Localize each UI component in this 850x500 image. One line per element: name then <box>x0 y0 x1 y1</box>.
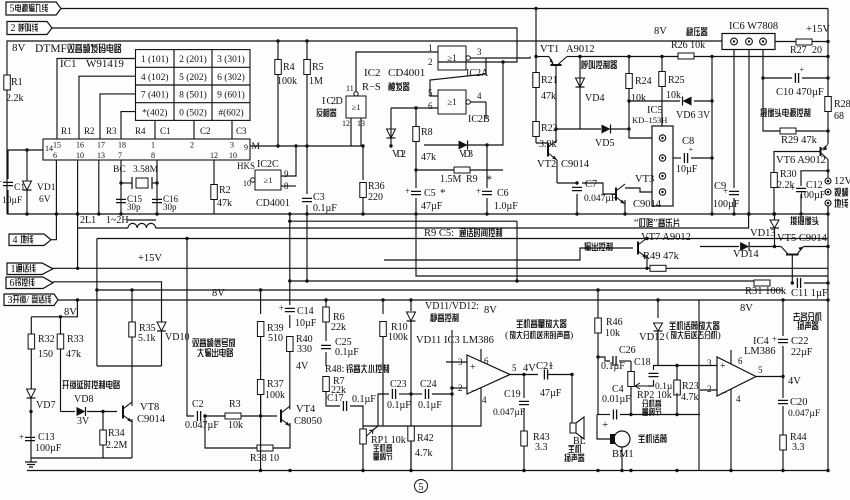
svg-text:1.5M: 1.5M <box>440 174 462 185</box>
wire bottoms to bus <box>259 469 262 472</box>
resistor R9 1.5M <box>416 169 503 171</box>
svg-text:R9: R9 <box>466 174 478 185</box>
svg-text:C7: C7 <box>585 179 597 190</box>
svg-text:0.1µF: 0.1µF <box>335 347 359 358</box>
resistor R35 <box>131 290 133 322</box>
svg-text:9 (601): 9 (601) <box>217 90 245 101</box>
svg-text:R32: R32 <box>38 334 55 345</box>
svg-text:VD13: VD13 <box>750 228 776 239</box>
wire VT2 collector node <box>535 114 537 121</box>
svg-text:6: 6 <box>738 356 743 366</box>
diode VD7 <box>27 389 36 398</box>
wire receive signal to C2 <box>187 239 194 417</box>
capacitor C6 <box>486 145 488 188</box>
svg-text:VD4: VD4 <box>585 93 604 104</box>
svg-text:RP1 10k: RP1 10k <box>371 435 406 446</box>
resistor R7 <box>323 377 330 392</box>
svg-text:330: 330 <box>297 344 312 355</box>
svg-text:6: 6 <box>484 356 489 366</box>
svg-text:R2: R2 <box>84 126 95 136</box>
diode VD13 <box>774 214 776 220</box>
svg-text:CD4001: CD4001 <box>256 198 290 209</box>
svg-text:8: 8 <box>151 151 155 160</box>
text dual tone output circuit <box>192 338 235 347</box>
svg-text:6: 6 <box>10 278 15 289</box>
svg-text:3V: 3V <box>77 416 90 427</box>
svg-text:DTMF: DTMF <box>35 43 67 55</box>
svg-text:2: 2 <box>401 149 406 160</box>
svg-text:3 (301): 3 (301) <box>217 54 245 65</box>
resistor R44 <box>780 435 787 450</box>
svg-text:+: + <box>549 362 554 371</box>
resistor R39 <box>260 290 262 314</box>
transistor VT7 pnp <box>637 242 639 255</box>
svg-text:47k: 47k <box>66 349 81 360</box>
svg-text:VT7 A9012: VT7 A9012 <box>641 232 691 243</box>
svg-text:5: 5 <box>419 482 424 493</box>
resistor R1 <box>4 75 11 90</box>
svg-text:7 (401): 7 (401) <box>141 90 169 101</box>
svg-text:2.2M: 2.2M <box>106 440 128 451</box>
wire M output <box>250 145 363 147</box>
svg-text:1.0µF: 1.0µF <box>494 201 518 212</box>
svg-text:0.1µF: 0.1µF <box>313 203 337 214</box>
ground bus y214 <box>7 213 828 215</box>
svg-text:1M: 1M <box>309 76 323 87</box>
svg-text:10k: 10k <box>605 328 620 339</box>
svg-text:4: 4 <box>477 91 482 101</box>
svg-text:+: + <box>19 432 24 442</box>
page number 5 <box>415 480 428 493</box>
svg-text:R26 10k: R26 10k <box>671 40 705 51</box>
svg-text:3V: 3V <box>698 110 711 121</box>
text unlock delay control <box>62 380 119 389</box>
resistor R25 <box>661 57 663 72</box>
resistor R38 <box>257 445 273 451</box>
resistor R24 <box>628 57 630 74</box>
svg-text:100µF: 100µF <box>713 199 740 210</box>
svg-text:47µF: 47µF <box>421 201 443 212</box>
text connect camera <box>790 216 818 225</box>
svg-text:47k: 47k <box>421 152 436 163</box>
svg-text:C3: C3 <box>313 192 325 203</box>
wire reg pin3 down <box>762 50 764 79</box>
svg-text:R37: R37 <box>267 379 284 390</box>
svg-text:≥1: ≥1 <box>264 175 273 185</box>
wire: left edge below R1 <box>6 90 8 214</box>
svg-text:10k: 10k <box>631 93 646 104</box>
svg-text:4.7k: 4.7k <box>681 392 699 403</box>
svg-text:≥1: ≥1 <box>447 97 456 107</box>
svg-text:HKS: HKS <box>237 161 255 171</box>
flag 5 power input line <box>6 2 61 15</box>
svg-text:+: + <box>470 362 476 373</box>
svg-text:20: 20 <box>812 45 822 56</box>
resistor R29 <box>763 78 790 131</box>
svg-text:(: ( <box>505 330 508 341</box>
svg-text:D: D <box>336 96 343 107</box>
diode VD3 <box>424 144 500 146</box>
diode VD12 <box>657 300 659 318</box>
gate IC2B <box>438 90 466 114</box>
svg-text:2 (201): 2 (201) <box>179 54 207 65</box>
wire 8V drop x77 <box>31 300 77 317</box>
svg-text:C2: C2 <box>200 126 211 136</box>
wire RS cross couple <box>430 58 486 96</box>
svg-text:10k: 10k <box>666 90 681 101</box>
wire IC2D inputs <box>350 118 352 146</box>
svg-text:VD14: VD14 <box>733 249 759 260</box>
svg-text:C3: C3 <box>236 126 247 136</box>
resistor R2 <box>213 160 215 214</box>
svg-text:M: M <box>252 142 261 152</box>
svg-text:100k: 100k <box>388 332 408 343</box>
bus y260 <box>384 248 633 260</box>
svg-text:68: 68 <box>834 111 844 122</box>
transistor VT4 <box>280 410 282 423</box>
svg-text:12: 12 <box>210 151 218 160</box>
svg-text:VD5: VD5 <box>595 138 614 149</box>
svg-text:A9012: A9012 <box>566 44 595 55</box>
resistor R22 <box>533 122 540 137</box>
wire chip pins <box>629 129 652 138</box>
text to extension speakers <box>793 312 821 321</box>
wire emitter line y56 <box>580 56 828 58</box>
resistor R42 <box>410 394 412 426</box>
resistor R10 <box>382 300 384 314</box>
svg-text:10: 10 <box>229 151 237 160</box>
diode VD4 <box>579 57 581 102</box>
transistor VT3 <box>615 188 617 201</box>
svg-text:IC2C: IC2C <box>257 159 279 170</box>
resistor R23 <box>658 366 677 383</box>
svg-text:2: 2 <box>458 383 463 393</box>
wire riser x96.9 down to unlock box <box>96 239 98 367</box>
svg-text:C19: C19 <box>504 389 521 400</box>
svg-text:IC6 W7808: IC6 W7808 <box>729 21 778 32</box>
flag 4 ground line <box>9 234 51 246</box>
wire reg pin2 down <box>748 50 750 215</box>
wire ring line <box>53 282 162 322</box>
svg-text:): ) <box>718 330 721 341</box>
svg-text:1: 1 <box>428 43 433 53</box>
svg-text:R27: R27 <box>790 45 807 56</box>
svg-text:R−S: R−S <box>362 82 381 93</box>
svg-text:C26: C26 <box>619 345 636 356</box>
wires: keypad cols to IC1 <box>154 120 156 139</box>
svg-text:3: 3 <box>8 295 13 306</box>
svg-text:C10 470µF: C10 470µF <box>776 87 824 98</box>
capacitor C10 <box>763 77 792 79</box>
svg-text:I: I <box>322 96 325 107</box>
svg-text:BC: BC <box>113 165 126 175</box>
resistor R34 <box>102 412 104 431</box>
ground symbol <box>30 458 32 462</box>
svg-text:3: 3 <box>707 358 712 368</box>
svg-text:+: + <box>720 361 726 372</box>
svg-text:VT4: VT4 <box>296 404 316 415</box>
net column x452 <box>451 330 453 471</box>
keypad matrix table <box>136 50 251 121</box>
svg-text:4V: 4V <box>523 363 536 374</box>
svg-text:3.58M: 3.58M <box>133 165 159 175</box>
svg-text:30p: 30p <box>127 202 141 212</box>
svg-text:1: 1 <box>151 141 155 150</box>
svg-text:0.1µF: 0.1µF <box>387 400 411 411</box>
svg-text:14: 14 <box>45 144 53 153</box>
wire IC4 pin3 <box>677 365 717 367</box>
svg-text:0.047µF: 0.047µF <box>493 408 525 418</box>
resistor R27 <box>796 39 812 45</box>
svg-text:6: 6 <box>428 101 433 111</box>
svg-text:VT5 C9014: VT5 C9014 <box>777 233 828 244</box>
svg-text:150: 150 <box>38 349 53 360</box>
svg-text:100µF: 100µF <box>35 443 62 454</box>
svg-text:3: 3 <box>230 141 234 150</box>
svg-text:8V: 8V <box>484 305 497 316</box>
svg-text:1 (101): 1 (101) <box>141 54 169 65</box>
svg-text:4V: 4V <box>788 376 801 387</box>
svg-text:+: + <box>790 183 795 193</box>
svg-text:C2: C2 <box>192 399 204 410</box>
svg-text:1~2H: 1~2H <box>106 215 129 226</box>
resistor R28 <box>825 97 832 112</box>
svg-text:VD11: VD11 <box>416 335 441 346</box>
svg-text:W91419: W91419 <box>86 58 124 70</box>
text camera power control <box>760 108 810 117</box>
wire mic line y414.5 <box>597 414 610 416</box>
wire VD3 line to gate <box>500 62 503 145</box>
wires IC1 bottom pins to ground bus <box>55 160 57 214</box>
svg-text:R4: R4 <box>283 62 295 73</box>
svg-text:2: 2 <box>428 57 433 67</box>
svg-text:2.2k: 2.2k <box>6 93 24 104</box>
svg-text:9: 9 <box>284 169 289 179</box>
capacitor C5 <box>415 170 417 188</box>
svg-text:12: 12 <box>342 119 350 128</box>
svg-text:+: + <box>279 303 284 313</box>
svg-text:#(602): #(602) <box>218 107 243 118</box>
gate IC2A <box>438 46 466 70</box>
svg-text:C13: C13 <box>38 432 55 443</box>
resistor R3 <box>225 413 241 419</box>
wires: keypad rows to IC1 <box>57 59 136 140</box>
svg-text:+: + <box>800 65 805 74</box>
transistor VT2 <box>547 144 549 157</box>
bottom bus <box>27 470 828 472</box>
svg-text:R9 C5:: R9 C5: <box>424 228 454 239</box>
svg-text:8 (501): 8 (501) <box>179 90 207 101</box>
svg-text:4: 4 <box>736 394 741 404</box>
svg-text:R1: R1 <box>61 126 72 136</box>
capacitor C1 <box>3 182 13 185</box>
svg-text:8V: 8V <box>64 307 77 318</box>
svg-text:BM1: BM1 <box>612 449 634 460</box>
svg-text:R24: R24 <box>635 76 652 87</box>
svg-text:*: * <box>440 187 446 199</box>
svg-text:10k: 10k <box>228 420 243 431</box>
svg-text:C9014: C9014 <box>561 159 590 170</box>
svg-text:1: 1 <box>11 264 16 275</box>
svg-text:3: 3 <box>477 47 482 57</box>
flag 3 unlock line <box>4 294 58 306</box>
potentiometer RP2 <box>628 372 635 387</box>
capacitor C2 <box>197 411 200 421</box>
svg-text:C24: C24 <box>420 379 437 390</box>
wire rail 712 <box>711 57 713 215</box>
wire gate inputs <box>391 107 438 109</box>
svg-text:R49 47k: R49 47k <box>643 251 680 262</box>
svg-text:0.1µF: 0.1µF <box>601 361 625 372</box>
wire VT4 emitter <box>273 423 290 448</box>
svg-text:47k: 47k <box>541 91 556 102</box>
svg-text:R25: R25 <box>668 75 685 86</box>
svg-text:+: + <box>405 186 410 196</box>
svg-text:“: “ <box>634 218 639 229</box>
svg-text:47µF: 47µF <box>540 388 562 399</box>
svg-text:4 (102): 4 (102) <box>141 72 169 83</box>
svg-text:5 (202): 5 (202) <box>179 72 207 83</box>
diode VD10 <box>157 322 166 331</box>
svg-text:510: 510 <box>268 333 283 344</box>
resistor R30 <box>774 152 821 173</box>
svg-text:5.1k: 5.1k <box>138 333 156 344</box>
svg-text:3.3: 3.3 <box>792 442 805 453</box>
capacitor C20 <box>782 377 784 399</box>
svg-text:R31 100k: R31 100k <box>745 286 787 297</box>
svg-text:47k: 47k <box>217 198 232 209</box>
capacitor C22 <box>782 300 784 336</box>
capacitor C13 <box>30 412 32 436</box>
capacitor C3 <box>306 146 308 194</box>
svg-text:3.3: 3.3 <box>535 442 548 453</box>
svg-text:10: 10 <box>76 151 84 160</box>
svg-text:17: 17 <box>97 141 105 150</box>
svg-text:IC1: IC1 <box>60 58 77 70</box>
svg-text:2: 2 <box>707 384 712 394</box>
svg-text:R33: R33 <box>67 334 84 345</box>
svg-text:LM386: LM386 <box>744 346 776 357</box>
diode VD11 <box>410 300 412 311</box>
svg-text:22µF: 22µF <box>791 347 813 358</box>
svg-text:): ) <box>570 330 573 341</box>
svg-text:C22: C22 <box>791 336 809 347</box>
svg-text:R34: R34 <box>108 428 125 439</box>
svg-text:0.1µF: 0.1µF <box>352 394 376 405</box>
flag 1 talk line <box>7 263 53 275</box>
svg-text:+: + <box>476 186 481 196</box>
svg-text:0.01µF: 0.01µF <box>602 394 631 405</box>
transistor VT1 pnp <box>486 57 530 59</box>
svg-text:VD10: VD10 <box>165 332 189 343</box>
svg-text:VD6: VD6 <box>676 110 695 121</box>
svg-text:0.1µF: 0.1µF <box>418 400 442 411</box>
bus y290 <box>97 289 783 291</box>
svg-text:VT2: VT2 <box>537 159 556 170</box>
wire riser x517 <box>516 221 518 281</box>
wire talk line <box>53 267 828 269</box>
svg-text:R29 47k: R29 47k <box>781 135 818 146</box>
capacitor C25 <box>321 345 331 348</box>
resistor R4 <box>277 41 279 146</box>
svg-text:C20: C20 <box>790 397 808 408</box>
svg-text:(: ( <box>666 330 669 341</box>
svg-text:18: 18 <box>118 141 126 150</box>
svg-text:0 (502): 0 (502) <box>179 107 207 118</box>
svg-text:C14: C14 <box>297 306 314 317</box>
svg-text:4: 4 <box>482 395 487 405</box>
svg-text:+: + <box>602 419 608 431</box>
capacitor C12 <box>801 171 828 186</box>
svg-text:R3: R3 <box>229 399 241 410</box>
svg-text:0.047µF: 0.047µF <box>788 409 820 419</box>
svg-text:VT3: VT3 <box>635 174 654 185</box>
wire IC2D out to RS <box>356 52 438 92</box>
wire IC4 out <box>756 376 783 378</box>
svg-text:5: 5 <box>10 4 15 15</box>
svg-text:6 (302): 6 (302) <box>217 72 245 83</box>
wire ground flag stub <box>51 214 56 240</box>
box edge x699 <box>698 300 700 471</box>
svg-text:−: − <box>471 386 477 397</box>
wire unlock line y300 <box>58 299 828 301</box>
svg-text:8V: 8V <box>740 303 753 314</box>
svg-text:0.047µF: 0.047µF <box>185 420 219 431</box>
svg-text:C23: C23 <box>390 379 407 390</box>
svg-text:R23: R23 <box>682 381 699 392</box>
capacitor C16 <box>152 199 162 202</box>
wire VT4 collector <box>289 408 291 411</box>
svg-text:VD1: VD1 <box>37 183 56 193</box>
svg-text:10: 10 <box>243 179 251 188</box>
svg-text:VD7: VD7 <box>36 400 55 411</box>
svg-text:R2: R2 <box>219 185 231 196</box>
svg-text:C1: C1 <box>14 183 25 193</box>
svg-text:R4: R4 <box>135 126 146 136</box>
svg-text:R1: R1 <box>11 77 23 88</box>
svg-text:10µF: 10µF <box>295 318 317 329</box>
text host mic amp <box>669 321 719 330</box>
svg-text:R5: R5 <box>312 62 324 73</box>
svg-text:”: ” <box>653 218 658 229</box>
wire VT8 collector net <box>97 365 162 367</box>
svg-text:VT6 A9012: VT6 A9012 <box>776 155 826 166</box>
svg-text:VD8: VD8 <box>74 394 93 405</box>
svg-text:9: 9 <box>244 143 248 152</box>
svg-text:30p: 30p <box>163 202 177 212</box>
svg-text:C8050: C8050 <box>294 416 322 427</box>
capacitor C11 <box>797 278 800 288</box>
resistor R5 <box>306 41 308 146</box>
svg-text:C18: C18 <box>634 357 651 368</box>
svg-text:6: 6 <box>53 151 57 160</box>
svg-text:R30: R30 <box>780 169 797 180</box>
svg-text:4.7k: 4.7k <box>415 448 433 459</box>
flag 6 ring control line <box>6 277 53 289</box>
svg-text:IC2: IC2 <box>364 67 381 79</box>
svg-text:C17: C17 <box>327 393 344 404</box>
svg-text:22k: 22k <box>331 322 346 333</box>
svg-text:C9014: C9014 <box>633 199 662 210</box>
svg-text:VD12: VD12 <box>639 332 665 343</box>
svg-text:5: 5 <box>758 365 763 375</box>
diode VD14 <box>700 246 739 248</box>
svg-text:VD11/VD12:: VD11/VD12: <box>425 301 479 312</box>
music chip IC5 body <box>652 126 673 206</box>
svg-text:C9014: C9014 <box>137 414 166 425</box>
resistor R8 <box>415 121 417 126</box>
resistor R43 <box>521 431 528 446</box>
